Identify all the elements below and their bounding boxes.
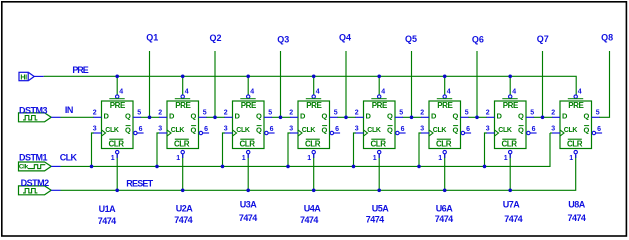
svg-text:U6A: U6A bbox=[436, 204, 454, 214]
pin 6 (Q-bar, active-low) of U3A bbox=[265, 131, 268, 134]
svg-text:4: 4 bbox=[185, 89, 189, 96]
svg-text:Q: Q bbox=[387, 112, 393, 121]
wire: RESET bus (DSTM2 output to U8A pin 1) bbox=[61, 155, 576, 190]
wire: IN (DSTM3 output to U1A pin 2) bbox=[61, 116, 95, 118]
svg-text:Q: Q bbox=[583, 112, 589, 121]
svg-text:Q6: Q6 bbox=[472, 34, 484, 44]
svg-text:Q1: Q1 bbox=[146, 33, 158, 43]
pin 1 (CLR, active-low) of U5A bbox=[371, 138, 385, 140]
svg-text:D: D bbox=[431, 112, 437, 121]
pin 2 (D) of U1A bbox=[94, 116, 102, 118]
svg-text:CLK: CLK bbox=[433, 127, 447, 134]
svg-text:CLK: CLK bbox=[564, 127, 578, 134]
wire: RESET drop from U1A pin 1 bbox=[116, 154, 118, 190]
svg-text:PRE: PRE bbox=[241, 101, 257, 110]
pin 6 (Q-bar, active-low) of U6A bbox=[461, 131, 464, 134]
D flip-flop U6A (7474) bbox=[420, 89, 471, 162]
junction: RESET bus to U3A pin 1 drop bbox=[246, 189, 250, 193]
svg-text:3: 3 bbox=[93, 125, 97, 132]
wire: RESET drop from U3A pin 1 bbox=[247, 154, 249, 190]
svg-text:U8A: U8A bbox=[568, 200, 586, 210]
svg-text:HI: HI bbox=[20, 74, 27, 81]
junction: RESET bus to U6A pin 1 drop bbox=[443, 189, 447, 193]
pin 1 (CLR, active-low) of U3A bbox=[240, 138, 254, 140]
pin 2 (D) of U8A bbox=[552, 116, 560, 118]
pin 6 (Q-bar, active-low) of U8A bbox=[592, 131, 595, 134]
svg-text:CLR: CLR bbox=[239, 139, 255, 148]
D flip-flop U3A (7474) bbox=[224, 89, 275, 162]
svg-text:6: 6 bbox=[270, 126, 274, 133]
svg-text:1: 1 bbox=[307, 155, 311, 162]
svg-text:Q8: Q8 bbox=[601, 32, 613, 42]
wire: Q1 (U1A pin 5 to U2A pin 2) bbox=[141, 116, 160, 118]
wire: Q7 riser to top label bbox=[542, 51, 544, 117]
pin 3 (CLK) of U4A bbox=[290, 132, 298, 134]
pin 4 (PRE, active-low) of U6A bbox=[443, 95, 446, 98]
svg-text:4: 4 bbox=[447, 89, 451, 96]
svg-text:2: 2 bbox=[355, 110, 359, 117]
svg-text:D: D bbox=[104, 112, 110, 121]
svg-text:PRE: PRE bbox=[437, 101, 453, 110]
D flip-flop U7A (7474) bbox=[486, 89, 537, 162]
svg-text:D: D bbox=[300, 112, 306, 121]
svg-text:Q5: Q5 bbox=[405, 34, 417, 44]
svg-text:5: 5 bbox=[399, 110, 403, 117]
svg-text:PRE: PRE bbox=[110, 101, 126, 110]
pin 1 (CLR, active-low) of U8A bbox=[568, 138, 582, 140]
pin 2 (D) of U6A bbox=[421, 116, 429, 118]
pin 5 (Q) of U7A bbox=[526, 116, 534, 118]
junction: CLK bus to U6A pin 3 drop bbox=[417, 165, 421, 169]
pin 1 (CLR, active-low) of U7A bbox=[502, 138, 516, 140]
wire: Q6 riser to top label bbox=[476, 51, 478, 117]
junction: Q3 riser on Q-D link bbox=[279, 116, 283, 120]
pin 1 (CLR, active-low) of U1A bbox=[109, 138, 123, 140]
D flip-flop U5A (7474) bbox=[355, 89, 406, 162]
svg-text:5: 5 bbox=[596, 110, 600, 117]
wire: PRE stub down to U2A pin 4 bbox=[182, 76, 184, 95]
svg-text:DSTM3: DSTM3 bbox=[19, 105, 47, 115]
svg-text:CLK: CLK bbox=[302, 127, 316, 134]
svg-text:3: 3 bbox=[420, 125, 424, 132]
svg-text:1: 1 bbox=[373, 155, 377, 162]
junction: RESET bus to U5A pin 1 drop bbox=[377, 189, 381, 193]
svg-text:Q2: Q2 bbox=[210, 33, 222, 43]
wire: PRE stub down to U7A pin 4 bbox=[509, 76, 511, 95]
svg-text:7474: 7474 bbox=[98, 216, 116, 226]
svg-text:U4A: U4A bbox=[304, 204, 322, 214]
svg-text:6: 6 bbox=[532, 126, 536, 133]
pin 1 (CLR, active-low) of U4A bbox=[306, 138, 320, 140]
svg-text:U1A: U1A bbox=[99, 204, 117, 214]
junction: PRE bus to U6A pin 4 stub bbox=[443, 75, 447, 79]
junction: CLK bus to U3A pin 3 drop bbox=[221, 165, 225, 169]
svg-text:Q: Q bbox=[321, 126, 327, 135]
wire: CLK drop to U7A pin 3 bbox=[485, 133, 488, 166]
svg-text:5: 5 bbox=[334, 110, 338, 117]
wire: PRE stub down to U6A pin 4 bbox=[444, 76, 446, 95]
pin 2 (D) of U4A bbox=[290, 116, 298, 118]
pin 3 (CLK) of U6A bbox=[421, 132, 429, 134]
svg-text:CLR: CLR bbox=[370, 139, 386, 148]
svg-text:4: 4 bbox=[512, 89, 516, 96]
pin 2 (D) of U3A bbox=[225, 116, 233, 118]
svg-text:Q: Q bbox=[125, 126, 131, 135]
stimulus source DSTM3 bbox=[19, 113, 61, 122]
svg-text:DSTM1: DSTM1 bbox=[19, 153, 47, 163]
junction: CLK bus to U1A pin 3 drop bbox=[90, 165, 94, 169]
pin 3 (CLK) of U7A bbox=[487, 132, 495, 134]
svg-text:CLR: CLR bbox=[108, 139, 124, 148]
wire: Q2 riser to top label bbox=[214, 51, 216, 117]
svg-text:7474: 7474 bbox=[504, 214, 522, 224]
svg-text:2: 2 bbox=[486, 110, 490, 117]
D flip-flop U1A (7474) bbox=[93, 89, 144, 162]
svg-text:RESET: RESET bbox=[126, 178, 153, 188]
svg-text:3: 3 bbox=[158, 125, 162, 132]
svg-text:CLR: CLR bbox=[436, 139, 452, 148]
svg-text:Q4: Q4 bbox=[339, 32, 351, 42]
junction: PRE bus to U2A pin 4 stub bbox=[181, 75, 185, 79]
svg-text:7474: 7474 bbox=[300, 215, 318, 225]
svg-text:PRE: PRE bbox=[372, 101, 388, 110]
junction: Q4 riser on Q-D link bbox=[344, 116, 348, 120]
pin 3 (CLK) of U2A bbox=[159, 132, 167, 134]
junction: RESET bus to U7A pin 1 drop bbox=[508, 189, 512, 193]
svg-text:6: 6 bbox=[204, 126, 208, 133]
svg-text:6: 6 bbox=[139, 126, 143, 133]
svg-text:3: 3 bbox=[355, 125, 359, 132]
wire: Q6 (U6A pin 5 to U7A pin 2) bbox=[468, 116, 487, 118]
junction: RESET bus to U2A pin 1 drop bbox=[181, 189, 185, 193]
pin 4 (PRE, active-low) of U1A bbox=[116, 95, 119, 98]
junction: PRE bus to U4A pin 4 stub bbox=[312, 75, 316, 79]
svg-text:Q: Q bbox=[125, 112, 131, 121]
wire: Q3 (U3A pin 5 to U4A pin 2) bbox=[272, 116, 291, 118]
pin 5 (Q) of U6A bbox=[461, 116, 469, 118]
svg-text:Q: Q bbox=[387, 126, 393, 135]
svg-text:5: 5 bbox=[137, 110, 141, 117]
junction: CLK bus to U4A pin 3 drop bbox=[286, 165, 290, 169]
svg-text:U3A: U3A bbox=[240, 200, 258, 210]
svg-text:CLK: CLK bbox=[171, 127, 185, 134]
pin 5 (Q) of U1A bbox=[133, 116, 141, 118]
pin 1 (CLR, active-low) of U2A bbox=[175, 138, 189, 140]
pin 2 (D) of U2A bbox=[159, 116, 167, 118]
svg-text:7474: 7474 bbox=[366, 215, 384, 225]
svg-text:7474: 7474 bbox=[239, 213, 257, 223]
svg-text:2: 2 bbox=[224, 110, 228, 117]
svg-text:IN: IN bbox=[65, 105, 73, 115]
svg-text:4: 4 bbox=[381, 89, 385, 96]
wire: Q5 (U5A pin 5 to U6A pin 2) bbox=[403, 116, 422, 118]
junction: RESET bus to U4A pin 1 drop bbox=[312, 189, 316, 193]
wire: CLK bus (DSTM1 output along bottom of flip-flops) bbox=[61, 133, 551, 166]
svg-text:1: 1 bbox=[111, 155, 115, 162]
junction: Q5 riser on Q-D link bbox=[410, 116, 414, 120]
svg-text:1: 1 bbox=[569, 155, 573, 162]
svg-text:Q: Q bbox=[518, 112, 524, 121]
pin 4 (PRE, active-low) of U5A bbox=[378, 95, 381, 98]
svg-text:PRE: PRE bbox=[72, 65, 88, 75]
pin 4 (PRE, active-low) of U2A bbox=[181, 95, 184, 98]
svg-text:Q7: Q7 bbox=[537, 34, 549, 44]
svg-text:1: 1 bbox=[242, 155, 246, 162]
wire: PRE bus (HI to U8A pin 4) bbox=[44, 76, 577, 95]
svg-text:2: 2 bbox=[551, 110, 555, 117]
svg-text:D: D bbox=[169, 112, 175, 121]
svg-text:U2A: U2A bbox=[176, 204, 194, 214]
svg-text:1: 1 bbox=[176, 155, 180, 162]
wire: Q3 riser to top label bbox=[280, 51, 282, 117]
svg-text:PRE: PRE bbox=[306, 101, 322, 110]
svg-text:7474: 7474 bbox=[568, 213, 586, 223]
wire: PRE stub down to U1A pin 4 bbox=[116, 76, 118, 95]
pin 3 (CLK) of U8A bbox=[552, 132, 560, 134]
pin 2 (D) of U7A bbox=[487, 116, 495, 118]
svg-text:CLK: CLK bbox=[367, 127, 381, 134]
svg-text:PRE: PRE bbox=[568, 101, 584, 110]
wire: Q1 riser to top label bbox=[149, 51, 151, 117]
svg-text:Clk: Clk bbox=[19, 164, 29, 171]
pin 5 (Q) of U8A bbox=[592, 116, 600, 118]
pin 5 (Q) of U4A bbox=[330, 116, 338, 118]
wire: CLK drop to U2A pin 3 bbox=[157, 133, 160, 166]
junction: CLK bus to U5A pin 3 drop bbox=[352, 165, 356, 169]
svg-text:Q: Q bbox=[518, 126, 524, 135]
svg-text:4: 4 bbox=[578, 89, 582, 96]
svg-text:6: 6 bbox=[597, 126, 601, 133]
wire: CLK drop to U5A pin 3 bbox=[354, 133, 357, 166]
wire: RESET drop from U4A pin 1 bbox=[313, 154, 315, 190]
svg-text:DSTM2: DSTM2 bbox=[21, 178, 49, 188]
svg-text:D: D bbox=[497, 112, 503, 121]
pin 6 (Q-bar, active-low) of U5A bbox=[396, 131, 399, 134]
wire: CLK drop to U3A pin 3 bbox=[223, 133, 226, 166]
svg-text:CLR: CLR bbox=[501, 139, 517, 148]
svg-text:CLR: CLR bbox=[305, 139, 321, 148]
D flip-flop U4A (7474) bbox=[289, 89, 340, 162]
svg-text:Q: Q bbox=[256, 112, 262, 121]
svg-text:Q3: Q3 bbox=[277, 34, 289, 44]
svg-text:Q: Q bbox=[190, 112, 196, 121]
svg-text:6: 6 bbox=[335, 126, 339, 133]
svg-text:3: 3 bbox=[289, 125, 293, 132]
svg-text:CLK: CLK bbox=[236, 127, 250, 134]
svg-text:CLK: CLK bbox=[105, 127, 119, 134]
svg-text:2: 2 bbox=[93, 110, 97, 117]
wire: RESET drop from U5A pin 1 bbox=[378, 154, 380, 190]
svg-text:1: 1 bbox=[438, 155, 442, 162]
wire: Q8 (U8A pin 5 up to top label) bbox=[599, 51, 610, 117]
stimulus source DSTM2 bbox=[19, 186, 61, 195]
junction: CLK bus to U2A pin 3 drop bbox=[155, 165, 159, 169]
svg-text:Q: Q bbox=[452, 126, 458, 135]
svg-text:2: 2 bbox=[158, 110, 162, 117]
wire: PRE stub down to U3A pin 4 bbox=[247, 76, 249, 95]
junction: Q2 riser on Q-D link bbox=[213, 116, 217, 120]
svg-text:D: D bbox=[562, 112, 568, 121]
wire: CLK drop to U4A pin 3 bbox=[288, 133, 291, 166]
svg-text:CLK: CLK bbox=[498, 127, 512, 134]
pin 5 (Q) of U2A bbox=[199, 116, 207, 118]
pin 4 (PRE, active-low) of U8A bbox=[574, 95, 577, 98]
D flip-flop U2A (7474) bbox=[158, 89, 209, 162]
svg-text:Q: Q bbox=[190, 126, 196, 135]
svg-text:D: D bbox=[235, 112, 241, 121]
svg-text:2: 2 bbox=[289, 110, 293, 117]
pin 4 (PRE, active-low) of U4A bbox=[312, 95, 315, 98]
svg-text:3: 3 bbox=[551, 125, 555, 132]
junction: PRE bus to U1A pin 4 stub bbox=[115, 75, 119, 79]
svg-text:Q: Q bbox=[452, 112, 458, 121]
svg-text:CLK: CLK bbox=[60, 153, 78, 163]
svg-text:4: 4 bbox=[250, 89, 254, 96]
wire: Q2 (U2A pin 5 to U3A pin 2) bbox=[206, 116, 225, 118]
svg-text:5: 5 bbox=[268, 110, 272, 117]
pin 3 (CLK) of U3A bbox=[225, 132, 233, 134]
pin 4 (PRE, active-low) of U3A bbox=[247, 95, 250, 98]
junction: RESET bus to U1A pin 1 drop bbox=[115, 189, 119, 193]
wire: CLK bus corner stub into U8A pin 3 bbox=[550, 132, 553, 134]
wire: Q7 (U7A pin 5 to U8A pin 2) bbox=[534, 116, 553, 118]
pin 6 (Q-bar, active-low) of U1A bbox=[134, 131, 137, 134]
svg-text:4: 4 bbox=[119, 89, 123, 96]
svg-text:4: 4 bbox=[316, 89, 320, 96]
pin 6 (Q-bar, active-low) of U4A bbox=[330, 131, 333, 134]
svg-text:5: 5 bbox=[530, 110, 534, 117]
junction: CLK bus to U7A pin 3 drop bbox=[483, 165, 487, 169]
wire: RESET drop from U2A pin 1 bbox=[182, 154, 184, 190]
svg-text:Q: Q bbox=[321, 112, 327, 121]
junction: Q7 riser on Q-D link bbox=[541, 116, 545, 120]
wire: CLK drop to U1A pin 3 bbox=[92, 133, 95, 166]
svg-text:D: D bbox=[366, 112, 372, 121]
junction: PRE bus to U7A pin 4 stub bbox=[508, 75, 512, 79]
wire: Q4 (U4A pin 5 to U5A pin 2) bbox=[337, 116, 356, 118]
power symbol HI (pulls PRE high) bbox=[19, 72, 44, 81]
svg-text:1: 1 bbox=[504, 155, 508, 162]
wire: RESET drop from U6A pin 1 bbox=[444, 154, 446, 190]
svg-text:U5A: U5A bbox=[372, 204, 390, 214]
junction: PRE bus to U3A pin 4 stub bbox=[246, 75, 250, 79]
svg-text:6: 6 bbox=[401, 126, 405, 133]
junction: Q1 riser on Q-D link bbox=[148, 116, 152, 120]
wire: PRE stub down to U4A pin 4 bbox=[313, 76, 315, 95]
pin 4 (PRE, active-low) of U7A bbox=[509, 95, 512, 98]
wire: RESET drop from U7A pin 1 bbox=[509, 154, 511, 190]
svg-text:Q: Q bbox=[256, 126, 262, 135]
pin 3 (CLK) of U5A bbox=[356, 132, 364, 134]
svg-text:7474: 7474 bbox=[174, 215, 192, 225]
wire: CLK drop to U6A pin 3 bbox=[419, 133, 422, 166]
svg-text:7474: 7474 bbox=[435, 214, 453, 224]
stimulus source DSTM1 bbox=[19, 162, 61, 171]
wire: Q5 riser to top label bbox=[411, 51, 413, 117]
svg-text:U7A: U7A bbox=[503, 200, 521, 210]
svg-text:6: 6 bbox=[466, 126, 470, 133]
pin 5 (Q) of U5A bbox=[395, 116, 403, 118]
pin 1 (CLR, active-low) of U6A bbox=[437, 138, 451, 140]
pin 5 (Q) of U3A bbox=[264, 116, 272, 118]
pin 3 (CLK) of U1A bbox=[94, 132, 102, 134]
svg-text:3: 3 bbox=[224, 125, 228, 132]
junction: Q6 riser on Q-D link bbox=[475, 116, 479, 120]
svg-text:PRE: PRE bbox=[503, 101, 519, 110]
svg-text:5: 5 bbox=[203, 110, 207, 117]
svg-text:CLR: CLR bbox=[174, 139, 190, 148]
pin 6 (Q-bar, active-low) of U2A bbox=[199, 131, 202, 134]
pin 2 (D) of U5A bbox=[356, 116, 364, 118]
junction: PRE bus to U5A pin 4 stub bbox=[377, 75, 381, 79]
svg-text:3: 3 bbox=[486, 125, 490, 132]
pin 6 (Q-bar, active-low) of U7A bbox=[527, 131, 530, 134]
svg-text:5: 5 bbox=[465, 110, 469, 117]
D flip-flop U8A (7474) bbox=[551, 89, 602, 162]
wire: PRE stub down to U5A pin 4 bbox=[378, 76, 380, 95]
svg-text:PRE: PRE bbox=[175, 101, 191, 110]
svg-text:2: 2 bbox=[420, 110, 424, 117]
svg-text:CLR: CLR bbox=[567, 139, 583, 148]
wire: Q4 riser to top label bbox=[345, 51, 347, 117]
svg-text:Q: Q bbox=[583, 126, 589, 135]
